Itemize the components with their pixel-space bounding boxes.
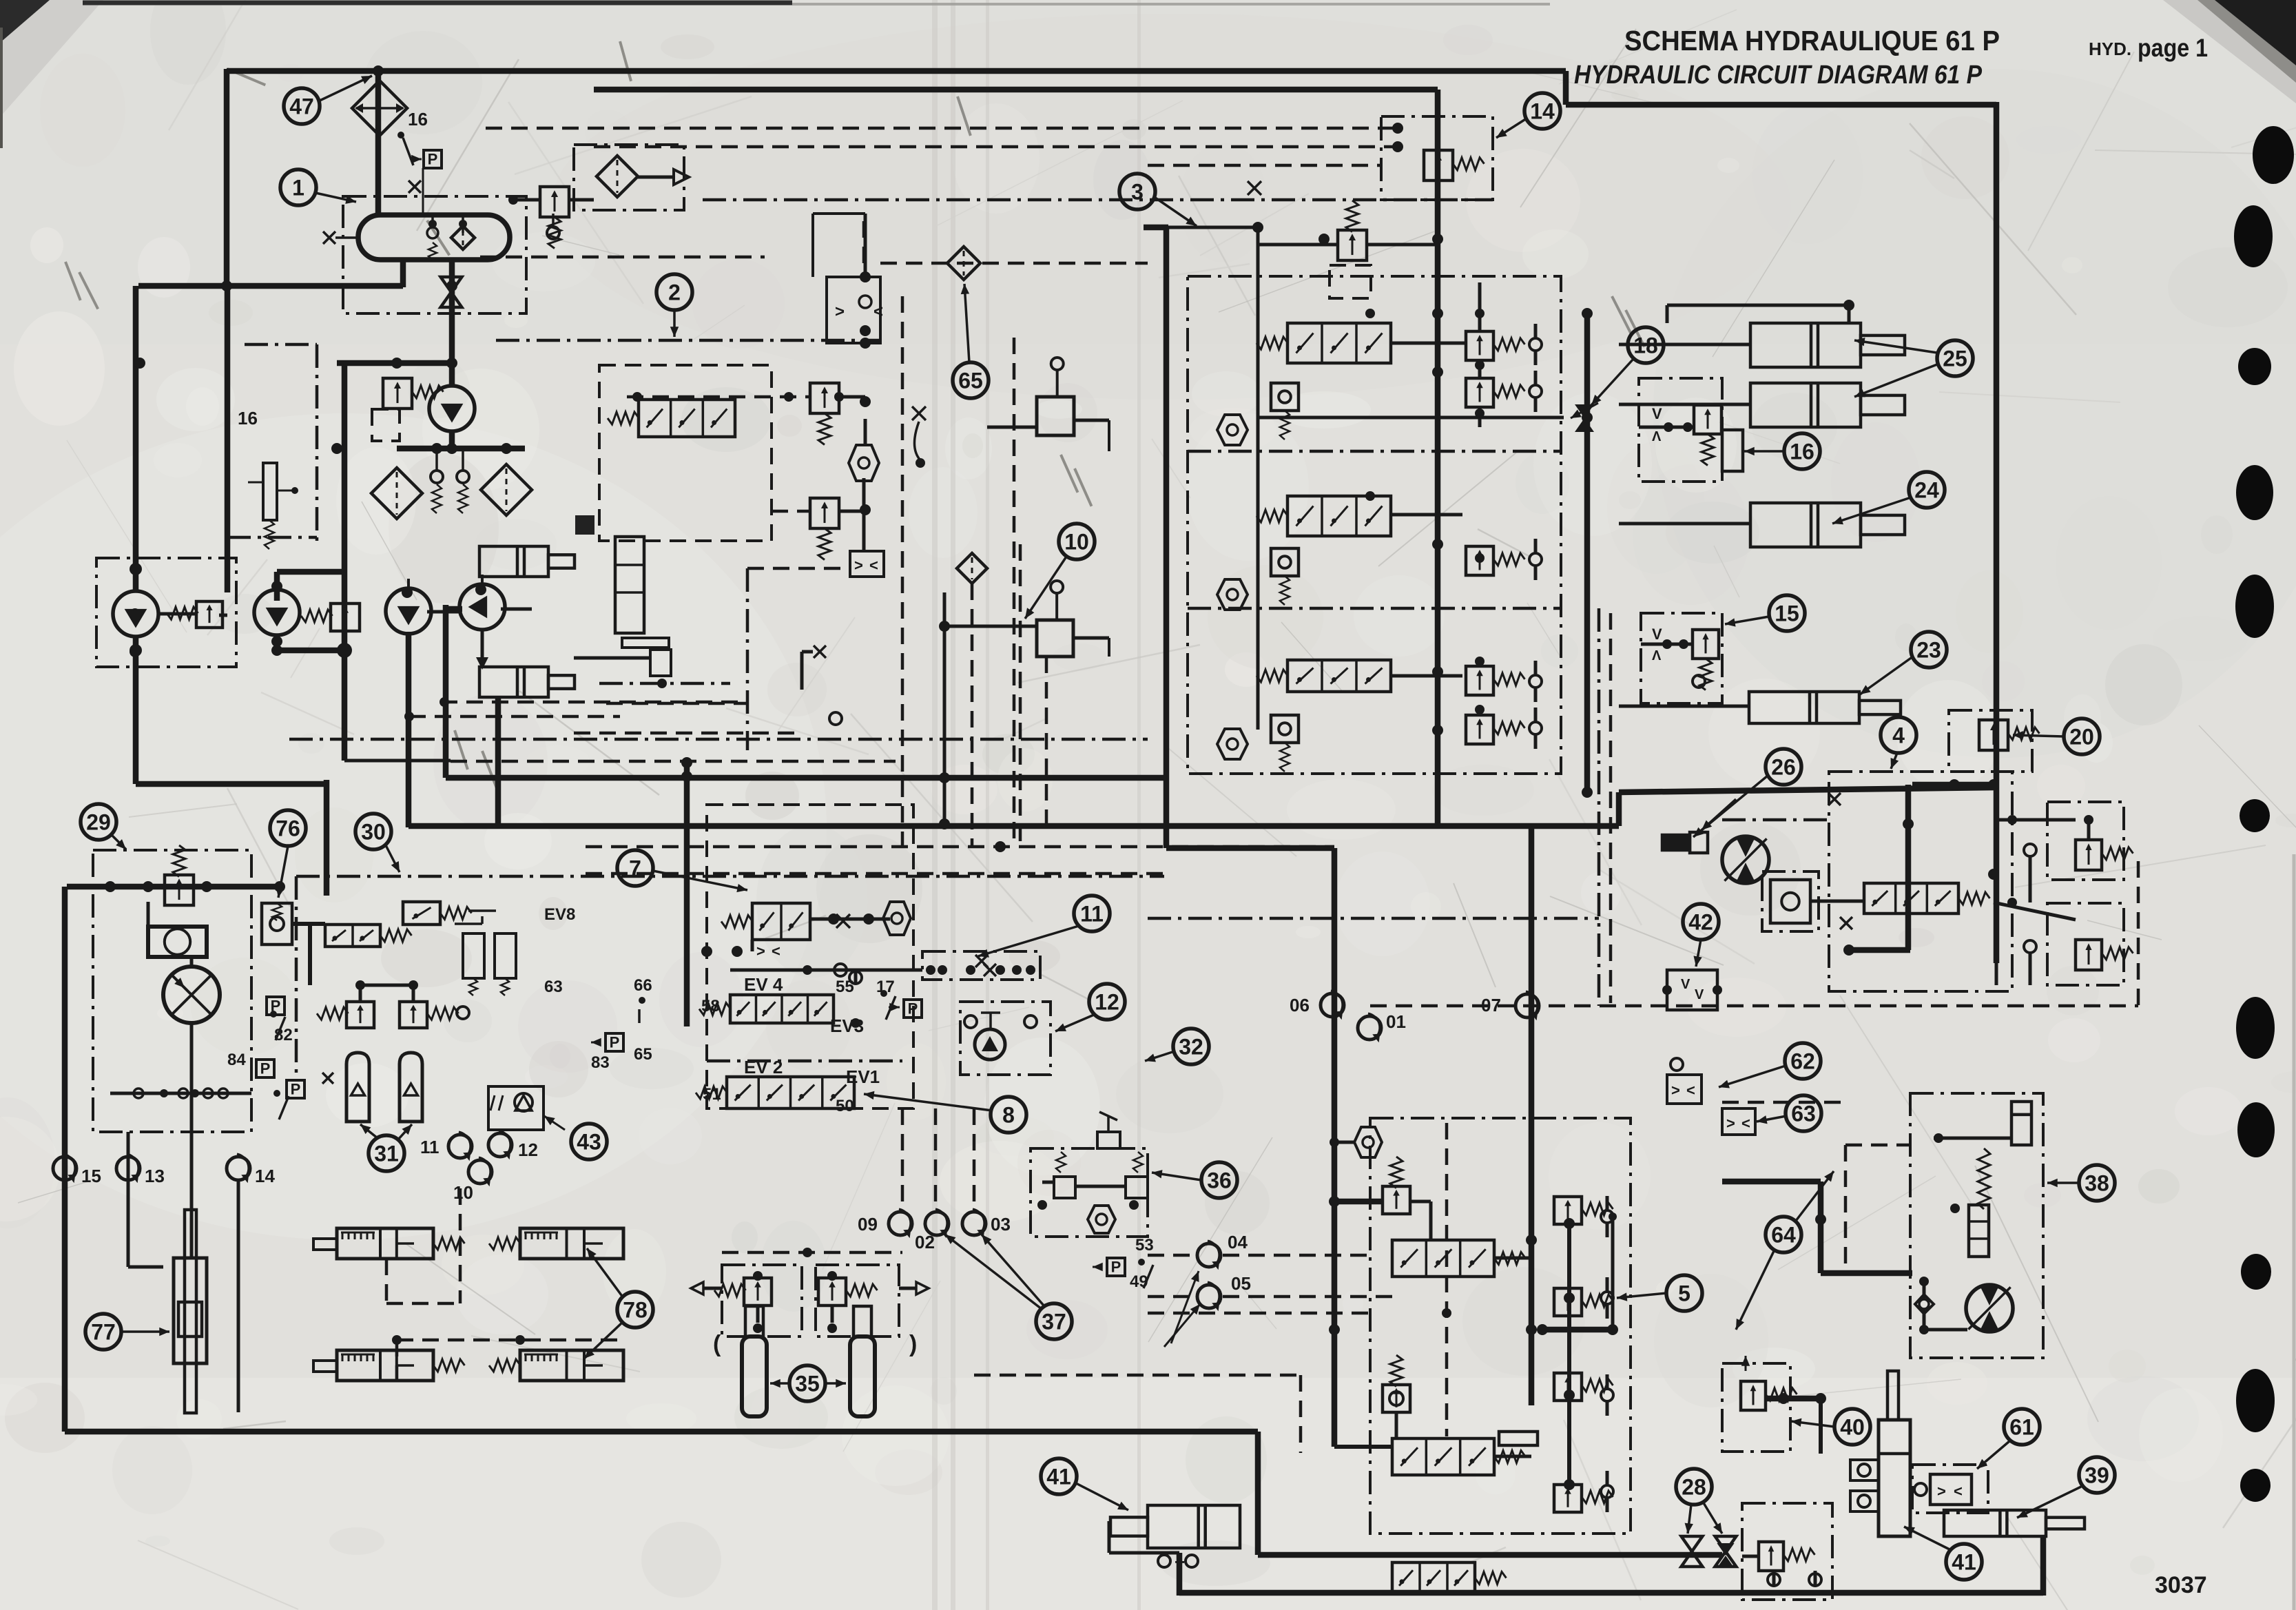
svg-text:13: 13 <box>145 1166 165 1186</box>
svg-text:23: 23 <box>1916 638 1941 663</box>
svg-text:EV 2: EV 2 <box>744 1057 783 1077</box>
svg-text:01: 01 <box>1386 1011 1406 1032</box>
svg-text:<: < <box>1686 1082 1695 1099</box>
svg-text:31: 31 <box>374 1142 399 1166</box>
svg-text:10: 10 <box>1064 530 1089 555</box>
svg-text:>: > <box>1937 1483 1946 1500</box>
svg-text:14: 14 <box>1530 99 1555 124</box>
svg-text:EV1: EV1 <box>846 1066 880 1087</box>
svg-text:3037: 3037 <box>2155 1572 2207 1598</box>
svg-text:65: 65 <box>634 1045 652 1064</box>
svg-text:76: 76 <box>276 816 300 841</box>
svg-text:64: 64 <box>1771 1223 1796 1248</box>
svg-text:38: 38 <box>2085 1171 2109 1196</box>
svg-text:(: ( <box>713 1331 721 1357</box>
svg-text:HYDRAULIC CIRCUIT DIAGRAM 61 P: HYDRAULIC CIRCUIT DIAGRAM 61 P <box>1574 61 1983 90</box>
svg-text:02: 02 <box>915 1232 935 1252</box>
svg-text:03: 03 <box>991 1214 1011 1235</box>
svg-text:53: 53 <box>1135 1236 1154 1255</box>
svg-text:V: V <box>1652 405 1662 422</box>
svg-text:4: 4 <box>1892 723 1905 748</box>
svg-text:>: > <box>1671 1082 1680 1099</box>
svg-text:42: 42 <box>1688 910 1713 935</box>
svg-text:63: 63 <box>1791 1102 1816 1126</box>
svg-text:V: V <box>1652 626 1662 643</box>
svg-text:HYD.: HYD. <box>2089 39 2131 59</box>
svg-text:>: > <box>835 302 845 321</box>
svg-text:P: P <box>291 1080 301 1097</box>
svg-text:28: 28 <box>1682 1475 1706 1500</box>
svg-text:<: < <box>772 942 780 960</box>
svg-text:43: 43 <box>577 1130 601 1155</box>
svg-text:<: < <box>873 302 883 321</box>
svg-text:P: P <box>908 1000 918 1017</box>
svg-text:page 1: page 1 <box>2138 34 2208 62</box>
svg-text:P: P <box>260 1060 271 1077</box>
svg-text:25: 25 <box>1943 347 1967 371</box>
svg-text:5: 5 <box>1678 1281 1690 1306</box>
svg-text:EV 4: EV 4 <box>744 974 783 995</box>
svg-text:V: V <box>1695 987 1704 1002</box>
svg-text:15: 15 <box>1775 601 1799 626</box>
svg-text:32: 32 <box>1179 1035 1203 1060</box>
svg-text:P: P <box>1111 1258 1121 1275</box>
svg-text:11: 11 <box>1080 902 1104 927</box>
svg-text:11: 11 <box>420 1137 439 1157</box>
svg-text:V: V <box>1681 977 1690 992</box>
svg-text:20: 20 <box>2069 725 2094 750</box>
svg-text:10: 10 <box>453 1182 473 1203</box>
svg-text:06: 06 <box>1290 995 1310 1015</box>
svg-text:36: 36 <box>1207 1168 1232 1193</box>
svg-text:62: 62 <box>1790 1049 1815 1074</box>
svg-text:15: 15 <box>81 1166 101 1186</box>
svg-text:30: 30 <box>361 820 386 845</box>
svg-text:66: 66 <box>634 976 652 995</box>
svg-text:83: 83 <box>591 1053 610 1072</box>
svg-text:24: 24 <box>1914 478 1939 503</box>
svg-text:63: 63 <box>544 978 563 996</box>
svg-text:8: 8 <box>1002 1103 1015 1128</box>
svg-text:>: > <box>1726 1115 1735 1132</box>
svg-text:12: 12 <box>1095 990 1119 1015</box>
svg-text:47: 47 <box>289 94 314 119</box>
svg-text:77: 77 <box>91 1320 116 1345</box>
svg-text:37: 37 <box>1042 1310 1066 1334</box>
svg-text:50: 50 <box>836 1097 854 1115</box>
svg-text:2: 2 <box>668 280 681 305</box>
svg-text:05: 05 <box>1231 1273 1251 1294</box>
svg-text:82: 82 <box>274 1026 293 1044</box>
svg-text:<: < <box>869 557 878 574</box>
svg-text:SCHEMA HYDRAULIQUE 61 P: SCHEMA HYDRAULIQUE 61 P <box>1624 25 2000 56</box>
svg-text:P: P <box>428 150 438 167</box>
svg-text:<: < <box>1954 1483 1963 1500</box>
svg-text:65: 65 <box>958 369 983 393</box>
svg-text:35: 35 <box>795 1372 820 1396</box>
svg-text:<: < <box>1741 1115 1750 1132</box>
svg-text:Λ: Λ <box>1652 429 1662 444</box>
svg-text:84: 84 <box>227 1051 246 1069</box>
svg-text:09: 09 <box>858 1214 878 1235</box>
svg-text:29: 29 <box>86 810 111 835</box>
svg-text:16: 16 <box>238 408 258 429</box>
svg-text:26: 26 <box>1771 755 1796 780</box>
svg-text:78: 78 <box>623 1298 648 1323</box>
svg-text:>: > <box>756 942 765 960</box>
svg-text:40: 40 <box>1840 1415 1865 1440</box>
svg-text:14: 14 <box>255 1166 275 1186</box>
svg-text:16: 16 <box>1790 440 1814 464</box>
svg-text:61: 61 <box>2009 1415 2034 1440</box>
svg-text:EV8: EV8 <box>544 905 575 924</box>
svg-text:7: 7 <box>629 856 641 881</box>
svg-text:41: 41 <box>1046 1465 1071 1489</box>
svg-text:1: 1 <box>292 176 304 200</box>
svg-text:39: 39 <box>2085 1463 2109 1488</box>
svg-text:04: 04 <box>1228 1232 1248 1252</box>
svg-text:12: 12 <box>518 1139 538 1160</box>
svg-text:P: P <box>610 1033 620 1051</box>
svg-text:41: 41 <box>1952 1550 1976 1575</box>
svg-text:>: > <box>854 557 863 574</box>
svg-text:): ) <box>909 1331 917 1357</box>
svg-text:Λ: Λ <box>1652 648 1662 663</box>
svg-text:16: 16 <box>408 109 428 130</box>
